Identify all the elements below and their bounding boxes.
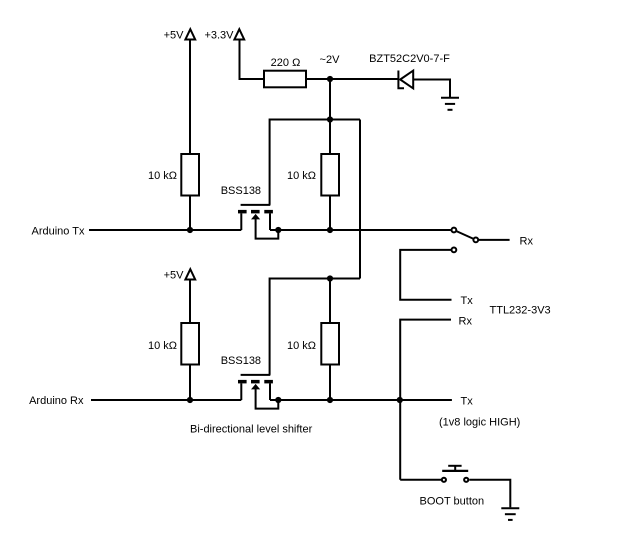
label 10 kOhm (lower left)	[148, 340, 177, 352]
wire boot button to ground	[469, 480, 510, 508]
wire +5V to lower-left resistor	[189, 280, 191, 324]
wire Arduino Rx left segment	[91, 399, 241, 401]
wire Arduino Tx right segment	[270, 229, 451, 231]
resistor 220 ohm	[264, 71, 306, 88]
svg-text:Tx: Tx	[461, 396, 474, 408]
junction upper rail	[327, 116, 333, 122]
junction Tx / upper-middle resistor	[327, 227, 333, 233]
label Arduino Rx	[29, 395, 84, 407]
switch contact C	[452, 248, 457, 253]
pushbutton BOOT	[442, 466, 469, 482]
label 10 kOhm (upper middle)	[287, 170, 316, 182]
resistor 10k (lower middle)	[321, 323, 339, 365]
wire 220 ohm to zener	[306, 78, 399, 80]
power +5V (upper)	[164, 29, 196, 41]
resistor 10k (upper left)	[181, 154, 199, 196]
ground (upper right)	[441, 98, 459, 110]
svg-text:(1v8 logic HIGH): (1v8 logic HIGH)	[439, 417, 520, 429]
junction lower rail	[327, 275, 333, 281]
svg-text:+3.3V: +3.3V	[204, 29, 234, 41]
transistor BSS138 (lower)	[238, 375, 278, 409]
power +3.3V	[204, 29, 244, 41]
label 10 kOhm (upper left)	[148, 170, 177, 182]
wire node2V down to upper rail and resistor	[329, 79, 331, 154]
svg-text:Arduino Rx: Arduino Rx	[29, 395, 84, 407]
wire lower rail to lower-middle resistor	[329, 279, 331, 324]
label TTL232-3V3	[490, 305, 551, 317]
wire zener to ground	[413, 80, 450, 98]
zener diode BZT52C2V0-7-F	[398, 71, 413, 89]
junction upper source-body	[275, 227, 281, 233]
wire upper gate rail	[270, 120, 360, 205]
wire lower-left resistor to Rx line	[189, 365, 191, 401]
svg-text:10 kΩ: 10 kΩ	[148, 170, 177, 182]
switch contact B	[473, 238, 478, 243]
resistor 10k (upper middle)	[321, 154, 339, 196]
wire switch C to Tx pin	[400, 250, 451, 300]
svg-text:BOOT button: BOOT button	[420, 496, 485, 508]
node ~2V junction	[327, 76, 333, 82]
wire +3.3V to 220 ohm resistor	[240, 40, 265, 80]
junction Rx / lower-middle resistor	[327, 397, 333, 403]
svg-text:10 kΩ: 10 kΩ	[287, 340, 316, 352]
label BSS138 (upper)	[221, 185, 261, 197]
label Rx (TTL232 upper)	[520, 235, 534, 247]
label Tx (1v8)	[461, 396, 474, 408]
wire lower gate rail	[270, 279, 360, 375]
wire upper-middle resistor to Tx line	[329, 196, 331, 231]
svg-text:BSS138: BSS138	[221, 355, 261, 367]
svg-text:220 Ω: 220 Ω	[271, 57, 301, 69]
wire cross link upper to lower rail	[359, 120, 361, 279]
wire Arduino Tx left segment	[89, 229, 241, 231]
svg-text:10 kΩ: 10 kΩ	[287, 170, 316, 182]
label 220 ohm	[271, 57, 301, 69]
svg-text:Rx: Rx	[459, 316, 473, 328]
wire Arduino Rx right segment	[270, 399, 452, 401]
label BOOT button	[420, 496, 485, 508]
label BSS138 (lower)	[221, 355, 261, 367]
wire +5V to upper-left resistor	[189, 40, 191, 154]
wire switch B to Rx pin	[479, 239, 510, 241]
resistor 10k (lower left)	[181, 323, 199, 365]
label Rx (TTL232 lower)	[459, 316, 473, 328]
switch contact A	[452, 228, 457, 233]
wire boot line left	[400, 479, 441, 481]
label Bi-directional level shifter	[190, 424, 313, 436]
label 10 kOhm (lower middle)	[287, 340, 316, 352]
label Tx (TTL232)	[461, 295, 474, 307]
label BZT52C2V0-7-F	[369, 53, 450, 65]
label ~2V	[320, 54, 341, 66]
label Arduino Tx	[32, 226, 85, 238]
svg-text:+5V: +5V	[164, 269, 185, 281]
junction lower source-body	[275, 397, 281, 403]
wire Rx pin down to boot line	[400, 320, 451, 480]
svg-text:Rx: Rx	[520, 235, 534, 247]
svg-text:~2V: ~2V	[320, 54, 341, 66]
junction Rx / lower-left resistor	[187, 397, 193, 403]
transistor BSS138 (upper)	[238, 205, 278, 239]
svg-text:Tx: Tx	[461, 295, 474, 307]
ground (bottom right)	[501, 508, 519, 520]
wire lower-middle resistor to Rx line	[329, 365, 331, 401]
svg-text:BZT52C2V0-7-F: BZT52C2V0-7-F	[369, 53, 450, 65]
svg-text:Arduino Tx: Arduino Tx	[32, 226, 85, 238]
junction Tx / upper-left resistor	[187, 227, 193, 233]
svg-text:+5V: +5V	[164, 29, 185, 41]
wire upper-left resistor to Tx line	[189, 196, 191, 231]
power +5V (lower)	[164, 269, 196, 281]
svg-text:BSS138: BSS138	[221, 185, 261, 197]
junction Rx / boot vertical	[397, 397, 403, 403]
svg-text:Bi-directional level shifter: Bi-directional level shifter	[190, 424, 313, 436]
switch blade	[454, 230, 476, 240]
label (1v8 logic HIGH)	[439, 417, 520, 429]
svg-text:TTL232-3V3: TTL232-3V3	[490, 305, 551, 317]
svg-text:10 kΩ: 10 kΩ	[148, 340, 177, 352]
